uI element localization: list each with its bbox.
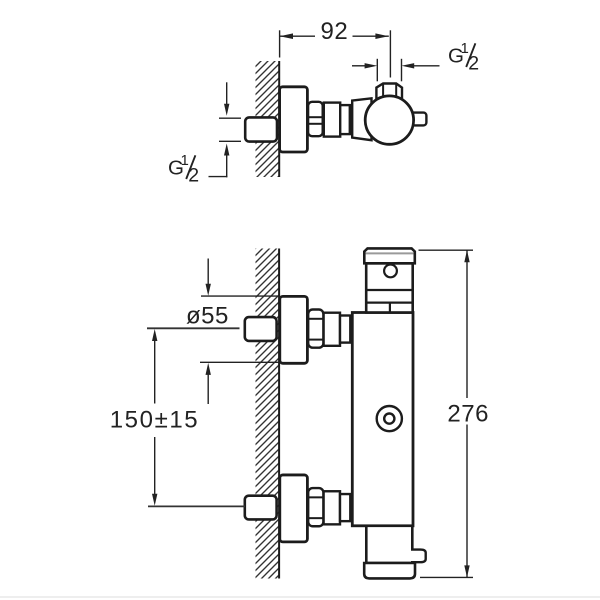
wall hatch (top view) xyxy=(256,61,280,177)
label G1/2 (left) xyxy=(168,152,199,187)
svg-text:ø55: ø55 xyxy=(186,303,229,330)
hex nut (top view) xyxy=(308,102,323,136)
wall pipe stub (top view) xyxy=(245,117,277,141)
top outlet nut (top view) xyxy=(376,84,402,100)
svg-text:150±15: 150±15 xyxy=(110,406,200,433)
svg-text:92: 92 xyxy=(321,18,349,45)
screw hole (front view) xyxy=(384,265,397,278)
side tab (top view) xyxy=(408,113,426,126)
lower inlet union (front view) xyxy=(245,475,350,542)
knob circles (front view) xyxy=(377,406,402,431)
dimension 92 xyxy=(279,30,281,57)
page separator line xyxy=(0,596,600,598)
wall surface line (top view) xyxy=(278,61,280,177)
escutcheon (top view) xyxy=(280,87,308,152)
drain tab (front view) xyxy=(411,550,426,563)
svg-text:276: 276 xyxy=(447,401,489,428)
lower housing (front view) xyxy=(366,526,412,563)
neck ring (top view) xyxy=(340,105,350,134)
top cap (front view) xyxy=(364,248,415,263)
dimension o55 xyxy=(207,259,209,285)
label G1/2 (top right) xyxy=(448,40,479,75)
upper neck section (front view) xyxy=(366,263,413,312)
wall surface line (front view) xyxy=(278,249,280,579)
connector sleeve (top view) xyxy=(324,103,340,137)
wall hatch (front view) xyxy=(256,249,280,579)
dimension G1/2 (top, outlet) xyxy=(376,59,378,82)
dimension 276 xyxy=(419,249,474,251)
bottom cap (front view) xyxy=(364,563,415,578)
body taper (top view) xyxy=(352,98,371,140)
valve head circle (top view) xyxy=(365,96,413,144)
upper inlet union (front view) xyxy=(245,296,350,363)
dimension G1/2 (left, inlet stub) xyxy=(226,82,228,104)
dimension 150+-15 xyxy=(147,327,240,329)
main body (front view) xyxy=(352,313,413,526)
